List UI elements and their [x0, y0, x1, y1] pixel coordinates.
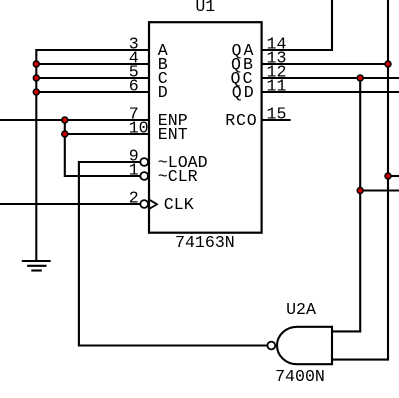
svg-text:CLK: CLK	[164, 195, 194, 214]
wire CLK from left edge	[0, 203, 140, 205]
ground	[22, 261, 51, 271]
svg-text:10: 10	[129, 119, 149, 138]
wire RCO stub	[262, 119, 291, 121]
junction node ENT	[62, 131, 68, 137]
wire ~LOAD to NAND output	[79, 162, 268, 346]
wire QD to right edge	[262, 91, 399, 93]
junction node QB	[385, 61, 391, 67]
junction node right y176	[385, 173, 391, 179]
svg-text:D: D	[158, 83, 168, 102]
svg-text:ENT: ENT	[158, 125, 188, 144]
wire tap to right edge at y=176	[388, 175, 399, 177]
junction node ENP	[62, 117, 68, 123]
svg-text:U1: U1	[195, 0, 215, 16]
bubble pin 9 ~LOAD	[140, 158, 148, 166]
wire QC to right edge	[262, 77, 399, 79]
svg-text:11: 11	[267, 77, 287, 96]
wire QC vertical down to NAND input A	[332, 78, 360, 331]
junction node C	[33, 75, 39, 81]
NAND gate U2A body	[277, 327, 332, 364]
wire pin A net with vertical bus to ground	[36, 50, 149, 261]
svg-text:1: 1	[129, 161, 139, 180]
svg-text:~CLR: ~CLR	[158, 167, 198, 186]
wire QB	[262, 63, 388, 65]
svg-text:QD: QD	[232, 83, 256, 102]
wire tap to right edge at y=190.5	[360, 189, 399, 191]
wire pin C	[36, 77, 149, 79]
IC U1 74163N body	[149, 22, 262, 233]
svg-text:6: 6	[129, 77, 139, 96]
svg-text:U2A: U2A	[286, 300, 316, 319]
svg-text:7400N: 7400N	[275, 367, 325, 386]
wire pin B	[36, 63, 149, 65]
wire vertical ENP-ENT-~CLR tie	[65, 120, 141, 176]
junction node right y190	[357, 188, 363, 194]
bubble pin 2 CLK	[140, 200, 148, 208]
svg-text:2: 2	[129, 189, 139, 208]
wire ENP from left edge	[0, 119, 149, 121]
NAND output bubble	[267, 342, 275, 350]
junction node D	[33, 89, 39, 95]
wire ENT	[65, 133, 149, 135]
bubble pin 1 ~CLR	[140, 172, 148, 180]
svg-text:15: 15	[267, 105, 287, 124]
clock edge triangle	[149, 200, 157, 210]
wire QA to top edge	[262, 0, 332, 50]
svg-text:RCO: RCO	[225, 111, 257, 130]
svg-text:74163N: 74163N	[175, 233, 235, 252]
junction node B	[33, 61, 39, 67]
junction node QC	[357, 75, 363, 81]
wire QB net vertical from top edge down to NAND input B	[332, 0, 388, 360]
wire pin D	[36, 91, 149, 93]
